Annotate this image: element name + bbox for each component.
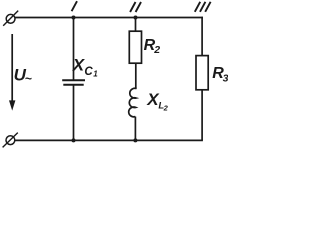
resistor R3 [196, 56, 208, 90]
wire branch I upper [73, 18, 75, 81]
wire top bus [15, 17, 203, 19]
junction node II top [134, 16, 138, 20]
junction node I bottom [72, 138, 76, 142]
capacitor XC1 [62, 80, 85, 85]
arrow U source [9, 34, 15, 111]
node label III [195, 2, 211, 12]
wire R3 to bottom [201, 90, 203, 141]
terminal bottom-left [3, 133, 18, 148]
svg-text:2: 2 [153, 44, 160, 56]
label XC1 [72, 55, 98, 78]
svg-text:2: 2 [163, 103, 169, 112]
label XL2 [146, 90, 168, 112]
inductor XL2 [129, 88, 137, 117]
wire branch II upper [135, 18, 137, 32]
wire L2 to bottom [134, 117, 136, 141]
label R2 [144, 37, 161, 56]
wire bottom bus [15, 139, 203, 141]
node label II [130, 2, 141, 12]
junction node I top [72, 16, 76, 20]
svg-text:1: 1 [93, 69, 98, 78]
label R3 [212, 65, 228, 84]
resistor R2 [129, 31, 141, 63]
wire branch III vertical [201, 17, 203, 56]
label U~ [14, 66, 32, 86]
junction node II bottom [133, 138, 137, 142]
terminal top-left [3, 11, 18, 26]
svg-text:C: C [84, 66, 93, 78]
wire branch I lower [73, 85, 75, 141]
svg-text:~: ~ [25, 72, 32, 86]
node label I [72, 1, 77, 11]
wire R2 to L2 [135, 63, 137, 89]
svg-text:3: 3 [223, 72, 228, 84]
